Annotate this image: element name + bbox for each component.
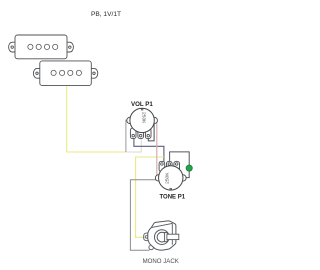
svg-text:250K: 250K xyxy=(164,172,170,184)
svg-text:TONE P1: TONE P1 xyxy=(160,194,186,200)
svg-text:250K: 250K xyxy=(141,112,147,124)
svg-text:MONO JACK: MONO JACK xyxy=(143,258,179,265)
svg-text:PB, 1V/1T: PB, 1V/1T xyxy=(91,11,121,18)
svg-text:VOL P1: VOL P1 xyxy=(131,101,153,108)
